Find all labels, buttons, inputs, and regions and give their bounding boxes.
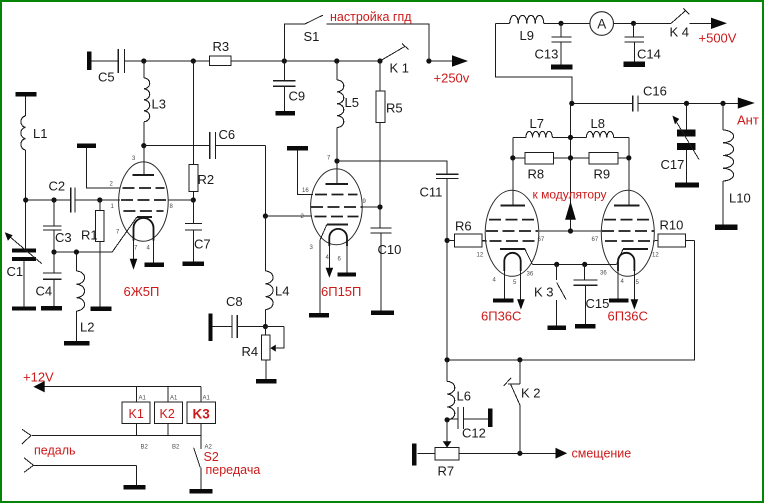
capacitor C8 bbox=[213, 326, 233, 328]
svg-text:L3: L3 bbox=[152, 97, 166, 112]
wire bbox=[124, 60, 209, 62]
svg-text:C11: C11 bbox=[420, 185, 443, 200]
pedal connector 2 bbox=[24, 458, 33, 466]
capacitor C16 bbox=[632, 95, 634, 111]
node bbox=[720, 101, 725, 106]
V2 cathode bbox=[327, 224, 348, 226]
svg-text:67: 67 bbox=[538, 237, 545, 243]
svg-text:K2: K2 bbox=[160, 407, 175, 421]
svg-text:C4: C4 bbox=[36, 284, 53, 299]
pedal connector bbox=[22, 429, 31, 435]
wire V4 anode lead bbox=[628, 137, 630, 205]
inductor L10 bbox=[722, 103, 724, 130]
svg-text:K3: K3 bbox=[193, 407, 211, 422]
svg-text:A1: A1 bbox=[139, 396, 147, 402]
wire to V2 grid bbox=[264, 146, 266, 216]
node bbox=[445, 238, 450, 243]
wire bbox=[544, 22, 561, 24]
svg-text:+12V: +12V bbox=[23, 370, 54, 385]
wire to modulator bbox=[570, 103, 572, 231]
svg-text:L8: L8 bbox=[591, 116, 605, 131]
svg-text:A: A bbox=[597, 16, 606, 31]
wire V3 anode lead bbox=[512, 137, 514, 205]
switch S1 bbox=[284, 24, 304, 61]
ground bbox=[91, 307, 112, 311]
svg-text:12: 12 bbox=[477, 253, 484, 259]
wire pin9 bbox=[362, 206, 380, 208]
capacitor C6 bbox=[144, 145, 210, 147]
wire +12V rail bbox=[45, 386, 202, 388]
node bbox=[334, 158, 339, 163]
ground bbox=[715, 225, 738, 230]
node bbox=[568, 135, 573, 140]
node bbox=[684, 101, 689, 106]
ground bbox=[145, 263, 165, 267]
ground bbox=[575, 324, 596, 328]
node bbox=[517, 451, 522, 456]
V2 heater bbox=[329, 229, 347, 246]
node bbox=[510, 155, 515, 160]
wire bbox=[33, 464, 136, 466]
svg-text:C12: C12 bbox=[462, 426, 486, 441]
variable capacitor C1 bbox=[12, 248, 36, 252]
arrow +12V bbox=[33, 381, 44, 392]
resistor R8 bbox=[525, 153, 553, 165]
svg-text:A1: A1 bbox=[170, 396, 178, 402]
svg-text:16: 16 bbox=[302, 188, 309, 194]
capacitor C9 bbox=[283, 61, 285, 80]
inductor L3 bbox=[143, 61, 145, 78]
inductor L5 bbox=[336, 61, 338, 80]
switch K4 bbox=[634, 22, 672, 24]
wire cathode row bbox=[54, 251, 112, 253]
capacitor C15 bbox=[584, 264, 586, 279]
capacitor C11 bbox=[436, 173, 459, 175]
switch K2 bbox=[519, 360, 521, 384]
wire bbox=[200, 424, 202, 449]
node bbox=[558, 21, 563, 26]
ground bbox=[276, 111, 296, 115]
svg-text:смещение: смещение bbox=[572, 447, 632, 461]
svg-text:C10: C10 bbox=[378, 242, 402, 257]
node bbox=[568, 228, 573, 233]
wire bbox=[86, 148, 120, 188]
capacitor C2 bbox=[70, 188, 72, 213]
ammeter A bbox=[590, 12, 614, 36]
node bbox=[582, 262, 587, 267]
arrow +500V bbox=[711, 18, 727, 29]
svg-text:S1: S1 bbox=[304, 29, 320, 44]
V1 grid 2 bbox=[121, 199, 167, 201]
svg-text:6П36С: 6П36С bbox=[608, 309, 648, 324]
V1 cathode bbox=[137, 216, 152, 218]
relay K2 bbox=[154, 402, 182, 424]
inductor L1 bbox=[25, 96, 27, 116]
V4 heater bbox=[618, 253, 634, 271]
arrow heater V3 bbox=[517, 299, 525, 309]
svg-text:67: 67 bbox=[592, 237, 599, 243]
capacitor C4 bbox=[53, 252, 55, 273]
V3 grid 1 bbox=[489, 219, 536, 221]
wire bbox=[446, 179, 448, 360]
potentiometer R7 bbox=[446, 420, 448, 442]
svg-text:R5: R5 bbox=[386, 101, 403, 116]
svg-text:L4: L4 bbox=[275, 284, 289, 299]
svg-text:к модулятору: к модулятору bbox=[533, 188, 607, 202]
svg-text:6П15П: 6П15П bbox=[321, 284, 361, 299]
wire screen row bbox=[539, 230, 602, 232]
wire bbox=[167, 387, 169, 402]
node bbox=[554, 262, 559, 267]
svg-text:C16: C16 bbox=[643, 84, 667, 99]
svg-text:C8: C8 bbox=[226, 294, 243, 309]
V3 cathode bbox=[500, 248, 525, 250]
ground bbox=[41, 306, 62, 310]
svg-text:L1: L1 bbox=[33, 126, 47, 141]
svg-text:36: 36 bbox=[527, 272, 534, 278]
capacitor C3 bbox=[53, 200, 55, 226]
node bbox=[517, 357, 522, 362]
V2 grid 3 bbox=[315, 216, 359, 218]
node bbox=[23, 197, 28, 202]
svg-text:B2: B2 bbox=[172, 445, 180, 451]
arrow heater V2 bbox=[326, 268, 334, 278]
svg-text:B2: B2 bbox=[141, 445, 149, 451]
ground bbox=[548, 325, 567, 330]
arrow to modulator bbox=[565, 201, 576, 220]
inductor L8 bbox=[571, 136, 587, 138]
arrow +250v bbox=[452, 55, 468, 66]
node bbox=[377, 58, 382, 63]
inductor L7 bbox=[513, 136, 526, 138]
V4 anode bbox=[614, 205, 640, 207]
V2 grid 2 bbox=[311, 206, 362, 208]
svg-text:C7: C7 bbox=[194, 237, 211, 252]
svg-text:C3: C3 bbox=[55, 230, 72, 245]
wire bbox=[91, 60, 118, 62]
svg-text:R7: R7 bbox=[438, 464, 455, 479]
node bbox=[191, 58, 196, 63]
resistor R3 bbox=[209, 56, 231, 66]
node bbox=[263, 213, 268, 218]
ground bbox=[493, 298, 513, 302]
svg-text:A1: A1 bbox=[203, 396, 211, 402]
V3 heater bbox=[504, 253, 520, 271]
V1 grid 1 bbox=[123, 187, 165, 189]
inductor L2 bbox=[75, 252, 77, 271]
switch K3 bbox=[556, 264, 558, 280]
ground above V1 grid bbox=[77, 144, 96, 148]
wire bbox=[638, 102, 738, 104]
svg-text:R8: R8 bbox=[528, 167, 545, 182]
svg-text:C17: C17 bbox=[661, 157, 685, 172]
wire bbox=[136, 424, 138, 436]
node bbox=[377, 204, 382, 209]
arrow heater V1 bbox=[130, 259, 138, 270]
ground bbox=[256, 379, 277, 383]
node bbox=[141, 143, 146, 148]
potentiometer R4 bbox=[262, 335, 270, 360]
relay K1 bbox=[122, 402, 150, 424]
resistor R10 bbox=[658, 234, 686, 247]
svg-text:Ант: Ант bbox=[737, 113, 759, 128]
V2 grid 1 bbox=[315, 194, 358, 196]
arrow antenna bbox=[738, 97, 755, 108]
node bbox=[631, 21, 636, 26]
variable capacitor C17 bbox=[686, 103, 688, 129]
capacitor C5 bbox=[117, 49, 119, 73]
resistor R9 bbox=[589, 153, 618, 165]
node bbox=[51, 197, 56, 202]
wire anode lead V1 bbox=[143, 146, 145, 175]
tube V4 envelope bbox=[601, 190, 654, 276]
svg-text:36: 36 bbox=[600, 271, 607, 277]
ground bbox=[338, 273, 356, 277]
node bbox=[334, 58, 339, 63]
ground bbox=[12, 306, 36, 310]
V1 grid 3 bbox=[123, 210, 163, 212]
ground bbox=[64, 341, 90, 345]
svg-text:6Ж5П: 6Ж5П bbox=[124, 284, 160, 299]
wire +250v rail bbox=[231, 60, 380, 62]
arrow heater V4 bbox=[631, 299, 639, 309]
svg-text:K 1: K 1 bbox=[390, 61, 410, 76]
inductor L6 bbox=[446, 360, 448, 382]
ground bbox=[124, 485, 146, 489]
wire pedal row bbox=[31, 435, 201, 437]
capacitor C12 bbox=[447, 418, 458, 420]
svg-text:+500V: +500V bbox=[699, 31, 737, 46]
wire to C11 bbox=[337, 161, 447, 174]
svg-text:+250v: +250v bbox=[434, 71, 470, 86]
node bbox=[74, 249, 79, 254]
node bbox=[445, 357, 450, 362]
wire bbox=[495, 23, 571, 103]
ground bbox=[309, 313, 329, 317]
svg-text:C13: C13 bbox=[535, 47, 559, 62]
wire bbox=[75, 199, 120, 201]
svg-text:педаль: педаль bbox=[34, 444, 76, 458]
tube V3 envelope bbox=[485, 190, 539, 276]
tube V1 envelope bbox=[119, 162, 169, 241]
svg-text:R6: R6 bbox=[455, 219, 472, 234]
ground bbox=[551, 65, 573, 70]
V4 cathode bbox=[623, 248, 648, 250]
node bbox=[263, 324, 268, 329]
ground above V2 grid bbox=[287, 146, 308, 150]
tube V2 envelope bbox=[311, 169, 363, 245]
wire bbox=[653, 239, 658, 242]
capacitor C14 bbox=[633, 23, 635, 36]
svg-text:R3: R3 bbox=[213, 39, 230, 54]
wire bbox=[136, 387, 138, 402]
wire cathode row bbox=[532, 263, 616, 265]
wire grid row bbox=[26, 199, 71, 201]
node bbox=[51, 249, 56, 254]
terminal for C12 bbox=[488, 409, 492, 427]
V3 grid 3 bbox=[490, 240, 535, 242]
arrow смещение bbox=[556, 448, 568, 459]
V3 anode bbox=[501, 205, 525, 207]
wire bbox=[495, 22, 509, 24]
wire bbox=[561, 22, 590, 24]
svg-text:R10: R10 bbox=[660, 218, 684, 233]
ground above L1 bbox=[15, 92, 36, 96]
wire bbox=[265, 215, 312, 217]
resistor R1 bbox=[99, 200, 101, 210]
svg-text:настройка гпд: настройка гпд bbox=[330, 10, 412, 24]
switch S2 bbox=[194, 448, 201, 468]
V4 grid 1 bbox=[604, 219, 651, 221]
svg-text:K 3: K 3 bbox=[534, 285, 554, 300]
node bbox=[426, 58, 431, 63]
node bbox=[191, 197, 196, 202]
node bbox=[568, 155, 573, 160]
wire bbox=[429, 60, 453, 62]
V3 grid 2 bbox=[486, 230, 538, 232]
svg-text:K 4: K 4 bbox=[670, 25, 690, 40]
svg-text:6П36С: 6П36С bbox=[481, 309, 521, 324]
node bbox=[445, 417, 450, 422]
capacitor C10 bbox=[371, 227, 392, 229]
resistor R6 bbox=[447, 239, 455, 241]
wire bbox=[167, 424, 169, 436]
ground bbox=[371, 311, 394, 315]
ground bbox=[190, 489, 213, 494]
svg-text:C14: C14 bbox=[637, 47, 661, 62]
V1 heater bbox=[134, 218, 154, 241]
ground bbox=[183, 262, 205, 266]
inductor L4 bbox=[264, 216, 266, 271]
wire bbox=[447, 240, 694, 359]
svg-text:K1: K1 bbox=[129, 407, 144, 421]
svg-text:C6: C6 bbox=[219, 127, 236, 142]
V4 grid 3 bbox=[605, 240, 650, 242]
svg-text:L7: L7 bbox=[530, 116, 544, 131]
wire bbox=[297, 150, 313, 194]
switch K1 bbox=[380, 47, 405, 62]
terminal for R7 bbox=[412, 444, 416, 466]
V4 grid 2 bbox=[602, 230, 654, 232]
svg-text:C5: C5 bbox=[98, 70, 115, 85]
svg-text:C2: C2 bbox=[49, 179, 66, 194]
node bbox=[626, 155, 631, 160]
node bbox=[282, 58, 287, 63]
relay K3 bbox=[187, 402, 216, 424]
terminal for C8 bbox=[209, 313, 213, 341]
node bbox=[97, 197, 102, 202]
svg-text:L2: L2 bbox=[80, 320, 94, 335]
resistor R2 bbox=[192, 61, 194, 165]
svg-text:передача: передача bbox=[206, 463, 261, 477]
svg-text:R2: R2 bbox=[198, 172, 215, 187]
svg-text:L6: L6 bbox=[457, 389, 471, 404]
wire bbox=[482, 240, 487, 242]
ground bbox=[623, 61, 645, 67]
capacitor C7 bbox=[192, 200, 194, 223]
svg-text:R9: R9 bbox=[594, 167, 611, 182]
svg-text:C15: C15 bbox=[586, 296, 610, 311]
terminal (input) for C5 bbox=[87, 52, 91, 71]
ground bbox=[609, 298, 629, 302]
svg-text:R1: R1 bbox=[81, 228, 98, 243]
wire bbox=[200, 387, 202, 402]
node bbox=[569, 101, 574, 106]
svg-text:C1: C1 bbox=[7, 264, 24, 279]
border frame bbox=[0, 0, 764, 2]
wire bbox=[690, 22, 712, 24]
wire C16 row bbox=[572, 102, 633, 104]
svg-text:L9: L9 bbox=[520, 28, 534, 43]
svg-text:L10: L10 bbox=[729, 191, 751, 206]
node bbox=[141, 58, 146, 63]
wire bbox=[614, 22, 634, 24]
capacitor C13 bbox=[560, 23, 562, 36]
V2 anode bbox=[325, 183, 348, 185]
svg-text:K 2: K 2 bbox=[521, 386, 541, 401]
svg-text:12: 12 bbox=[652, 253, 659, 259]
svg-text:L5: L5 bbox=[345, 95, 359, 110]
wire pin8 bbox=[168, 199, 193, 201]
svg-text:R4: R4 bbox=[242, 344, 259, 359]
ground bbox=[675, 182, 699, 187]
resistor R5 bbox=[379, 61, 381, 91]
V1 anode bbox=[132, 174, 154, 176]
svg-text:C9: C9 bbox=[289, 89, 306, 104]
inductor L9 bbox=[510, 15, 544, 23]
